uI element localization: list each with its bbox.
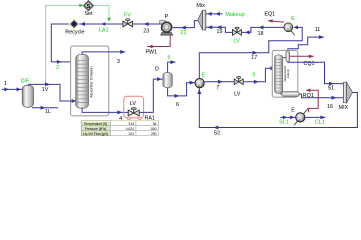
wire stream 11 condenser overhead — [288, 37, 324, 51]
svg-text:500: 500 — [151, 127, 157, 131]
wire stream 6 to E hx — [168, 83, 196, 96]
recycle operator Recycle — [65, 19, 84, 35]
property table RA1 — [82, 121, 159, 136]
svg-text:D/F: D/F — [21, 78, 30, 84]
svg-text:D: D — [155, 66, 159, 72]
svg-text:S2: S2 — [214, 130, 221, 136]
mixer Mix — [196, 3, 205, 30]
wire stream 4 absorber bottoms — [82, 108, 128, 113]
svg-text:19: 19 — [217, 29, 223, 35]
valve LV middle — [234, 77, 243, 98]
flash drum D — [155, 66, 172, 87]
mixer MIX — [339, 82, 353, 111]
svg-text:4,624: 4,624 — [126, 127, 134, 131]
svg-text:column: column — [286, 68, 290, 78]
energy stream CQ1 — [290, 55, 314, 57]
energy stream RQ1 — [306, 90, 318, 112]
svg-text:18: 18 — [258, 31, 264, 37]
heat exchanger E top right — [284, 16, 295, 35]
svg-text:1: 1 — [4, 81, 7, 87]
svg-text:11: 11 — [315, 27, 321, 33]
wire stream 9 to regenerator — [243, 68, 276, 82]
wire stream 3 absorber overhead — [82, 52, 125, 55]
svg-text:Recycle: Recycle — [65, 29, 84, 35]
wire stream 19 LV to Mix — [206, 27, 233, 32]
svg-text:SL1: SL1 — [279, 119, 289, 125]
wire signal arrow into Set — [79, 4, 83, 7]
valve FV — [123, 12, 133, 27]
valve LV top — [233, 27, 242, 44]
svg-text:FV: FV — [124, 12, 131, 18]
wire stream 17 E-hx to E-exchanger — [199, 27, 302, 78]
pump P — [160, 14, 173, 35]
svg-text:3: 3 — [117, 59, 120, 65]
svg-text:6: 6 — [176, 102, 179, 108]
svg-text:LV: LV — [234, 91, 241, 97]
heat exchanger E middle — [195, 72, 206, 87]
svg-text:Liq Vol Flow [g/h]: Liq Vol Flow [g/h] — [83, 132, 108, 136]
svg-text:LV: LV — [233, 39, 240, 45]
svg-text:CL1: CL1 — [315, 119, 325, 125]
svg-text:17: 17 — [251, 55, 257, 61]
svg-text:E: E — [291, 107, 295, 113]
wire stream 7 E to LV — [204, 81, 235, 83]
svg-text:S1: S1 — [328, 86, 335, 92]
svg-text:Set: Set — [84, 11, 93, 17]
wire stream 2 Recycle to Absorber — [51, 24, 76, 62]
energy stream EQ1 — [268, 21, 284, 22]
wire stream S1 condenser to MIX — [288, 62, 344, 84]
svg-text:PW1: PW1 — [145, 50, 157, 56]
svg-text:MIX: MIX — [339, 105, 349, 111]
svg-text:2: 2 — [56, 65, 59, 71]
svg-text:R: R — [72, 22, 76, 28]
energy stream PW1 — [147, 35, 170, 46]
wire stream S2 into E hx bottom — [199, 88, 357, 128]
svg-text:Absorber Column: Absorber Column — [88, 66, 93, 97]
svg-text:7: 7 — [216, 85, 219, 91]
svg-text:250: 250 — [151, 132, 157, 136]
svg-text:16: 16 — [327, 104, 333, 110]
svg-text:Pressure [kPa]: Pressure [kPa] — [85, 127, 107, 131]
wire stream LA1/23 pump to Recycle — [79, 23, 161, 25]
svg-text:1V: 1V — [42, 87, 49, 93]
wire stream 18 E to LV — [242, 27, 285, 32]
svg-text:23: 23 — [143, 29, 149, 35]
svg-text:9: 9 — [252, 73, 255, 79]
wire stream 5 — [168, 62, 176, 72]
stream 1L — [32, 107, 58, 109]
svg-text:21: 21 — [180, 30, 186, 36]
svg-text:1L: 1L — [45, 109, 51, 115]
wire stream 21 Mix to pump — [172, 21, 198, 28]
absorber column T-100 — [71, 46, 109, 116]
svg-text:Makeup: Makeup — [225, 12, 244, 18]
svg-text:E: E — [291, 16, 295, 22]
regenerator column — [272, 50, 299, 97]
svg-text:EQ1: EQ1 — [264, 11, 275, 17]
svg-text:5: 5 — [167, 55, 170, 61]
svg-text:LV: LV — [130, 101, 137, 107]
svg-text:LA1: LA1 — [99, 28, 109, 34]
wire signal Set to LA1 — [93, 5, 109, 19]
wire stream 1V to absorber — [28, 84, 76, 101]
feed vessel D/F — [21, 78, 34, 107]
svg-text:S: S — [87, 4, 91, 10]
svg-text:P: P — [165, 14, 169, 20]
wire stream RA1 to drum D — [139, 79, 162, 112]
wire stream 16 reboiler to MIX — [299, 94, 343, 98]
wire signal arrow into LA1 — [107, 18, 110, 22]
svg-text:201: 201 — [128, 132, 134, 136]
svg-text:54: 54 — [153, 122, 157, 126]
wire signal Set from 1V — [46, 5, 81, 84]
stream 1 — [2, 88, 22, 90]
valve LV selected — [124, 96, 144, 120]
svg-text:E: E — [202, 72, 206, 78]
svg-text:314: 314 — [128, 122, 134, 126]
cooler E bottom — [291, 107, 308, 125]
stream CL1 — [305, 116, 326, 118]
svg-text:Temperature [K]: Temperature [K] — [84, 122, 108, 126]
stream Makeup — [206, 13, 223, 15]
stream SL1 — [280, 116, 296, 118]
svg-text:Mix: Mix — [196, 3, 205, 9]
set operator Set — [84, 1, 94, 17]
